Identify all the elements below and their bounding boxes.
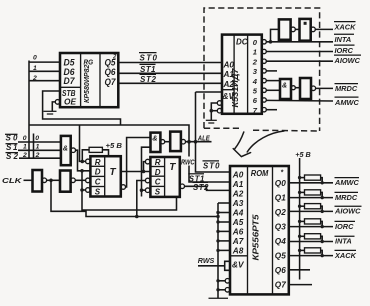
svg-text:Q5: Q5 xyxy=(275,251,286,261)
svg-text:1: 1 xyxy=(253,48,257,57)
svg-text:T: T xyxy=(169,162,176,173)
svg-text:ST2: ST2 xyxy=(140,75,157,84)
svg-text:1: 1 xyxy=(33,65,37,72)
svg-text:ST0: ST0 xyxy=(140,54,158,63)
svg-text:R: R xyxy=(155,158,161,167)
svg-text:Q7: Q7 xyxy=(275,280,287,290)
svg-text:Q6: Q6 xyxy=(105,67,117,77)
svg-text:XACK: XACK xyxy=(334,251,357,260)
svg-text:1: 1 xyxy=(23,144,27,151)
svg-text:ST1: ST1 xyxy=(140,65,156,74)
svg-text:0: 0 xyxy=(35,135,39,142)
svg-text:Q6: Q6 xyxy=(275,265,286,275)
svg-text:ST0: ST0 xyxy=(203,162,220,171)
svg-text:AIOWC: AIOWC xyxy=(334,207,361,216)
svg-text:0: 0 xyxy=(23,135,27,142)
svg-text:D7: D7 xyxy=(64,76,76,86)
svg-text:2: 2 xyxy=(32,75,37,82)
svg-text:IORC: IORC xyxy=(335,222,354,231)
svg-text:INTA: INTA xyxy=(335,35,352,44)
svg-text:Q3: Q3 xyxy=(275,222,286,232)
svg-text:MRDC: MRDC xyxy=(335,193,358,202)
svg-text:D: D xyxy=(155,168,161,177)
svg-text:AMWC: AMWC xyxy=(334,178,359,187)
svg-text:A0: A0 xyxy=(223,59,235,69)
svg-text:&: & xyxy=(152,133,157,142)
svg-text:XACK: XACK xyxy=(334,22,357,31)
svg-text:S: S xyxy=(95,188,101,197)
svg-text:&: & xyxy=(282,82,287,89)
svg-text:A0: A0 xyxy=(232,171,244,180)
svg-text:A1: A1 xyxy=(232,180,244,189)
svg-text:*: * xyxy=(281,170,284,177)
svg-text:ROM: ROM xyxy=(251,169,269,178)
svg-text:MRDC: MRDC xyxy=(335,84,358,93)
svg-text:CLK: CLK xyxy=(2,176,22,185)
svg-text:RWC: RWC xyxy=(181,157,195,166)
svg-text:AMWC: AMWC xyxy=(334,98,359,107)
svg-text:A6: A6 xyxy=(232,227,244,236)
svg-text:2: 2 xyxy=(35,152,40,159)
svg-text:2: 2 xyxy=(252,57,258,66)
svg-text:Q0: Q0 xyxy=(275,178,286,188)
svg-text:R: R xyxy=(95,158,101,167)
svg-text:AIOWC: AIOWC xyxy=(334,56,361,65)
svg-text:ST2: ST2 xyxy=(193,183,209,192)
svg-text:0: 0 xyxy=(33,55,37,62)
svg-text:КР556РТ5: КР556РТ5 xyxy=(250,214,260,260)
svg-text:КР580ИР82: КР580ИР82 xyxy=(82,64,91,103)
svg-text:ALE: ALE xyxy=(197,133,211,142)
svg-text:S: S xyxy=(155,188,161,197)
svg-text:2: 2 xyxy=(22,152,27,159)
svg-text:INTA: INTA xyxy=(335,237,352,246)
svg-text:Q7: Q7 xyxy=(105,77,117,87)
svg-text:C: C xyxy=(95,178,101,187)
svg-text:Q1: Q1 xyxy=(275,193,286,203)
svg-text:1: 1 xyxy=(36,144,40,151)
svg-text:DC: DC xyxy=(236,37,248,47)
svg-text:A3: A3 xyxy=(232,199,244,208)
svg-text:+5 В: +5 В xyxy=(106,141,123,150)
svg-text:A5: A5 xyxy=(232,218,244,227)
svg-text:+5 В: +5 В xyxy=(295,150,311,159)
svg-text:A7: A7 xyxy=(232,237,244,246)
svg-text:&: & xyxy=(63,144,68,153)
svg-text:T: T xyxy=(110,167,117,178)
svg-text:A8: A8 xyxy=(232,246,244,255)
svg-text:Q4: Q4 xyxy=(275,236,286,246)
svg-text:К531ИД7: К531ИД7 xyxy=(231,68,240,107)
svg-text:A2: A2 xyxy=(232,190,244,199)
svg-text:RWS: RWS xyxy=(198,256,215,265)
svg-text:IORC: IORC xyxy=(335,46,354,55)
svg-text:D: D xyxy=(95,168,101,177)
svg-text:C: C xyxy=(155,177,161,186)
svg-text:Q2: Q2 xyxy=(275,207,286,217)
svg-text:&V: &V xyxy=(232,260,245,270)
svg-text:A4: A4 xyxy=(232,209,244,218)
svg-text:4: 4 xyxy=(252,77,258,86)
svg-text:2: 2 xyxy=(112,55,117,61)
svg-text:OE: OE xyxy=(64,96,76,106)
